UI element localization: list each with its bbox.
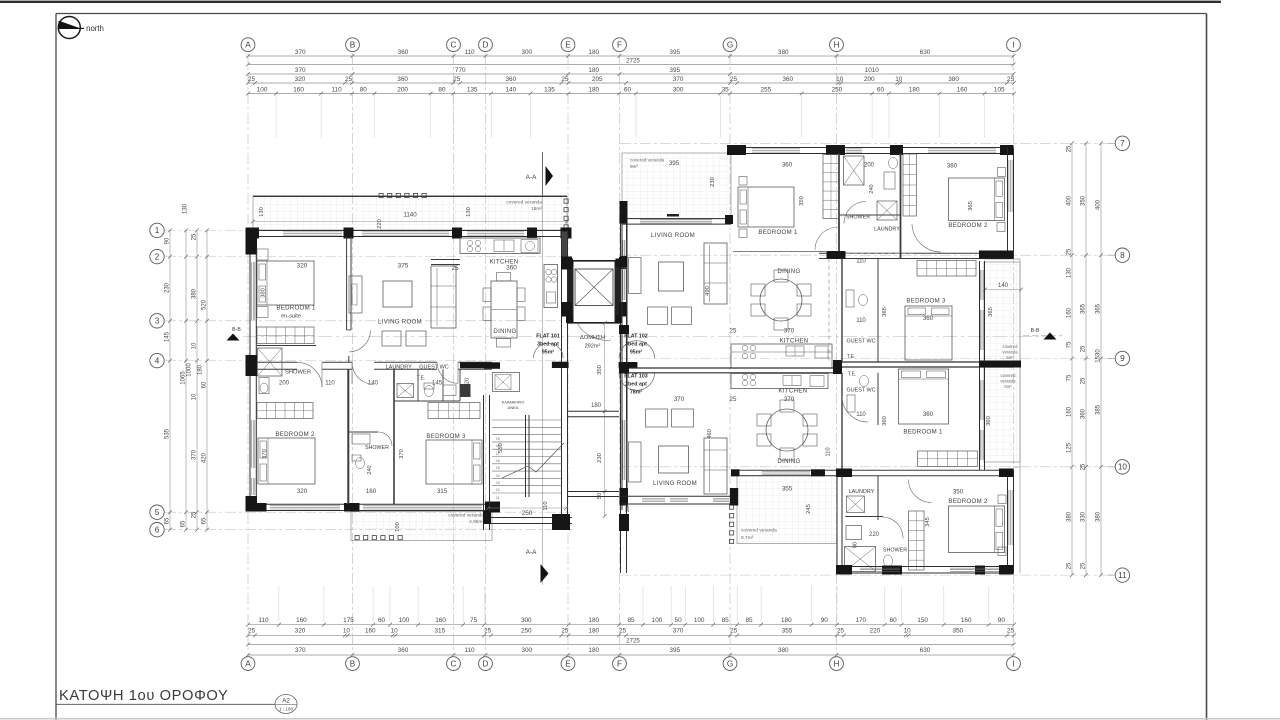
svg-text:1 : 100: 1 : 100 xyxy=(279,707,293,712)
wall stub above sofa xyxy=(431,259,460,261)
svg-text:78m²: 78m² xyxy=(630,390,643,396)
svg-text:10: 10 xyxy=(836,76,844,83)
extension lines bottom xyxy=(278,586,280,622)
kitchen tall counter right xyxy=(544,265,558,308)
svg-text:75: 75 xyxy=(1067,341,1073,348)
svg-text:1530: 1530 xyxy=(1096,349,1102,363)
corridor walls xyxy=(562,232,568,268)
svg-text:180: 180 xyxy=(588,86,599,93)
svg-text:DINING: DINING xyxy=(493,328,516,335)
svg-text:370: 370 xyxy=(673,76,684,83)
svg-text:8,7m²: 8,7m² xyxy=(741,535,754,541)
svg-text:135: 135 xyxy=(467,86,478,93)
flat103 mid wall xyxy=(731,469,1014,471)
svg-text:630: 630 xyxy=(920,49,931,56)
svg-text:350: 350 xyxy=(1081,195,1087,206)
interior wall bedroom1 / living room xyxy=(346,237,348,331)
svg-text:25: 25 xyxy=(561,628,569,635)
svg-text:5: 5 xyxy=(155,508,160,517)
svg-text:T.E.: T.E. xyxy=(847,354,856,360)
flat103 dining round table xyxy=(766,409,808,451)
svg-text:300: 300 xyxy=(673,86,684,93)
svg-text:380: 380 xyxy=(1067,511,1073,522)
svg-text:160: 160 xyxy=(293,86,304,93)
svg-text:10: 10 xyxy=(343,628,351,635)
svg-text:370: 370 xyxy=(784,396,795,403)
svg-text:292m²: 292m² xyxy=(585,344,601,350)
flat102 dining round table xyxy=(760,279,802,321)
svg-text:180: 180 xyxy=(591,403,602,409)
svg-text:380: 380 xyxy=(778,49,789,56)
svg-text:BEDROOM 2: BEDROOM 2 xyxy=(275,431,315,438)
covered veranda middle of flat 103 xyxy=(737,476,837,544)
svg-text:A: A xyxy=(245,659,251,668)
svg-text:365: 365 xyxy=(968,201,974,211)
grid row bubbles right xyxy=(1115,136,1129,150)
svg-text:350: 350 xyxy=(952,628,963,635)
svg-text:100: 100 xyxy=(257,86,268,93)
flat102 mid wall xyxy=(819,252,1014,254)
hall wall horizontal xyxy=(257,361,297,363)
wall shower / bedroom3 xyxy=(393,369,395,504)
svg-text:380: 380 xyxy=(192,288,198,299)
svg-text:11: 11 xyxy=(1118,571,1127,580)
svg-text:365: 365 xyxy=(1096,303,1102,314)
svg-text:300: 300 xyxy=(521,617,532,624)
svg-text:25: 25 xyxy=(561,76,569,83)
svg-text:35: 35 xyxy=(722,86,730,93)
svg-text:85: 85 xyxy=(722,617,730,624)
svg-text:130: 130 xyxy=(183,203,189,214)
section line A-A top xyxy=(542,152,544,585)
svg-text:25: 25 xyxy=(1081,463,1087,470)
svg-text:80: 80 xyxy=(438,86,446,93)
svg-text:360: 360 xyxy=(398,49,409,56)
svg-text:25: 25 xyxy=(484,628,492,635)
svg-text:630: 630 xyxy=(920,647,931,654)
bedroom1 door arc xyxy=(349,331,371,353)
svg-text:BEDROOM 3: BEDROOM 3 xyxy=(906,298,946,305)
svg-text:370: 370 xyxy=(673,628,684,635)
left building windows left wall xyxy=(251,262,253,320)
svg-text:360: 360 xyxy=(1081,408,1087,419)
svg-text:SHOWER: SHOWER xyxy=(365,445,389,451)
svg-text:FLAT 102: FLAT 102 xyxy=(624,334,648,340)
dining table left building xyxy=(491,281,517,338)
svg-text:5m²: 5m² xyxy=(1004,384,1012,389)
svg-text:9m²: 9m² xyxy=(630,164,638,169)
scale bubble A2 1:100 xyxy=(275,695,297,714)
section line B-B across xyxy=(243,336,1045,338)
svg-text:FLAT 103: FLAT 103 xyxy=(624,374,648,380)
svg-text:D: D xyxy=(483,40,489,49)
svg-text:25: 25 xyxy=(837,628,845,635)
svg-text:covered: covered xyxy=(1003,344,1019,349)
svg-text:110: 110 xyxy=(464,49,475,56)
north arrow symbol xyxy=(58,17,80,39)
svg-text:65: 65 xyxy=(202,517,208,524)
flat entrance doors from corridor xyxy=(534,343,564,358)
grid column bubbles bottom xyxy=(241,657,255,671)
svg-text:160: 160 xyxy=(961,617,972,624)
svg-text:A2: A2 xyxy=(282,698,290,705)
svg-text:350: 350 xyxy=(597,365,603,375)
en-suite separating wall xyxy=(257,345,316,347)
svg-text:D: D xyxy=(483,659,489,668)
living room coffee table xyxy=(383,281,412,307)
svg-text:BEDROOM 3: BEDROOM 3 xyxy=(426,433,466,440)
svg-text:370: 370 xyxy=(295,49,306,56)
svg-text:220: 220 xyxy=(377,219,383,229)
svg-text:2bed apt: 2bed apt xyxy=(625,382,647,388)
svg-text:370: 370 xyxy=(399,449,405,459)
svg-text:2: 2 xyxy=(155,252,160,261)
svg-text:370: 370 xyxy=(295,647,306,654)
living room furniture tv unit xyxy=(349,276,362,313)
bottom dimension row 2 xyxy=(248,634,1014,636)
svg-text:350: 350 xyxy=(953,489,964,496)
flat103 bedroom2 xyxy=(939,476,941,506)
svg-text:10: 10 xyxy=(904,628,912,635)
svg-text:25: 25 xyxy=(1081,562,1087,569)
svg-text:BEDROOM 1: BEDROOM 1 xyxy=(758,229,798,236)
svg-text:25: 25 xyxy=(248,628,256,635)
svg-text:GUEST WC: GUEST WC xyxy=(419,365,449,371)
svg-text:85: 85 xyxy=(627,617,635,624)
svg-text:420: 420 xyxy=(202,452,208,463)
svg-text:315: 315 xyxy=(437,488,448,495)
svg-text:25: 25 xyxy=(1081,345,1087,352)
svg-text:95m²: 95m² xyxy=(542,350,555,356)
flat103 shower room xyxy=(845,547,876,572)
svg-text:250: 250 xyxy=(832,86,843,93)
svg-text:25: 25 xyxy=(1007,76,1015,83)
flat102 bedroom2 door arc xyxy=(912,224,941,252)
svg-text:3bed apt: 3bed apt xyxy=(537,342,559,348)
svg-text:395: 395 xyxy=(669,160,680,167)
flat102 bedroom1 bed xyxy=(738,187,794,227)
svg-text:25: 25 xyxy=(1067,562,1073,569)
svg-text:A-A: A-A xyxy=(526,174,537,181)
svg-text:6: 6 xyxy=(155,525,160,534)
svg-text:320: 320 xyxy=(297,488,308,495)
svg-text:320: 320 xyxy=(295,76,306,83)
svg-text:BEDROOM 2: BEDROOM 2 xyxy=(948,498,988,505)
svg-text:65: 65 xyxy=(181,520,187,527)
svg-text:60: 60 xyxy=(202,381,208,388)
guest wc sink xyxy=(443,385,456,396)
left building exterior walls xyxy=(250,230,567,232)
svg-text:240: 240 xyxy=(869,184,875,193)
svg-text:200: 200 xyxy=(864,76,875,83)
svg-text:150: 150 xyxy=(917,617,928,624)
svg-text:360: 360 xyxy=(398,647,409,654)
svg-text:G: G xyxy=(727,40,733,49)
svg-text:160: 160 xyxy=(435,617,446,624)
svg-text:125: 125 xyxy=(1067,442,1073,453)
flat102 guest wc xyxy=(841,259,843,363)
svg-text:200: 200 xyxy=(864,163,875,169)
svg-text:230: 230 xyxy=(597,453,603,463)
svg-text:90: 90 xyxy=(165,237,171,244)
svg-text:200: 200 xyxy=(397,86,408,93)
bedroom1 bed xyxy=(257,261,314,305)
svg-text:LIVING ROOM: LIVING ROOM xyxy=(651,232,695,239)
svg-text:north: north xyxy=(86,24,104,33)
svg-text:10: 10 xyxy=(1118,463,1128,472)
wall bedroom2 / shower xyxy=(347,369,349,504)
svg-text:3: 3 xyxy=(155,317,160,326)
svg-text:E: E xyxy=(565,659,571,668)
svg-text:160: 160 xyxy=(957,86,968,93)
svg-text:25: 25 xyxy=(192,233,198,240)
svg-text:GUEST WC: GUEST WC xyxy=(847,339,876,345)
svg-text:180: 180 xyxy=(588,617,599,624)
svg-text:25: 25 xyxy=(453,76,461,83)
svg-text:375: 375 xyxy=(398,263,409,270)
bottom dimension row detail xyxy=(248,624,1014,626)
flat103 laundry xyxy=(836,476,838,567)
top dimension row 5 xyxy=(248,93,1014,95)
svg-text:145: 145 xyxy=(165,331,171,342)
extension lines top xyxy=(275,96,277,139)
svg-text:50: 50 xyxy=(675,617,683,624)
svg-text:25: 25 xyxy=(1081,377,1087,384)
right side vertical dimension lines xyxy=(1071,143,1073,575)
right building top wall columns xyxy=(727,145,746,155)
svg-text:160: 160 xyxy=(366,488,377,495)
flat102 bedroom2 bed xyxy=(949,178,1005,221)
flat102 closet between laundry bed2 xyxy=(903,154,917,216)
flat103 shower door arc xyxy=(883,517,904,539)
svg-text:110: 110 xyxy=(325,381,335,387)
svg-text:1010: 1010 xyxy=(865,67,880,74)
svg-text:365: 365 xyxy=(1081,303,1087,314)
svg-text:140: 140 xyxy=(998,283,1009,289)
covered veranda top of left building xyxy=(253,196,567,230)
flat103 living room furniture xyxy=(629,442,642,482)
svg-text:370: 370 xyxy=(262,449,268,459)
svg-text:ΑΝΕΑ: ΑΝΕΑ xyxy=(508,405,519,410)
guest wc toilet xyxy=(424,383,434,389)
svg-text:covered veranda: covered veranda xyxy=(741,528,777,534)
svg-text:25: 25 xyxy=(451,265,459,272)
covered veranda bottom of left building xyxy=(351,512,492,541)
top dimension row 4 xyxy=(248,82,1014,84)
flat102 shower room xyxy=(844,156,865,185)
svg-text:G: G xyxy=(727,659,733,668)
bedroom3 bed xyxy=(426,440,482,484)
svg-text:355: 355 xyxy=(782,628,793,635)
svg-text:H: H xyxy=(834,659,840,668)
svg-text:220: 220 xyxy=(870,628,881,635)
svg-text:365: 365 xyxy=(882,307,888,317)
flat102 bedroom3 xyxy=(917,261,976,277)
svg-text:I: I xyxy=(1012,659,1014,668)
stairwell walls xyxy=(483,395,485,530)
svg-text:100: 100 xyxy=(395,522,401,532)
svg-text:380: 380 xyxy=(1096,511,1102,522)
svg-text:I: I xyxy=(1012,40,1014,49)
svg-text:60: 60 xyxy=(890,617,898,624)
svg-text:100: 100 xyxy=(694,617,705,624)
svg-text:140: 140 xyxy=(505,86,516,93)
svg-text:360: 360 xyxy=(397,76,408,83)
flat102 laundry washer xyxy=(877,201,897,220)
svg-text:360: 360 xyxy=(882,416,888,426)
svg-text:3bed apt: 3bed apt xyxy=(625,342,647,348)
svg-text:240: 240 xyxy=(367,465,373,474)
svg-text:220: 220 xyxy=(869,532,880,538)
svg-text:B: B xyxy=(350,40,356,49)
svg-text:180: 180 xyxy=(588,49,599,56)
stair treads xyxy=(492,419,562,421)
svg-text:BEDROOM 2: BEDROOM 2 xyxy=(948,222,988,229)
svg-text:LIVING ROOM: LIVING ROOM xyxy=(378,319,422,326)
grid lines vertical dashed xyxy=(247,53,249,655)
svg-text:90: 90 xyxy=(998,617,1006,624)
svg-text:covered: covered xyxy=(1001,373,1017,378)
svg-text:300: 300 xyxy=(521,49,532,56)
svg-text:110: 110 xyxy=(543,501,549,510)
flat103 bedroom2 door arc xyxy=(909,480,932,503)
svg-text:320: 320 xyxy=(295,628,306,635)
svg-text:60: 60 xyxy=(877,86,885,93)
svg-text:350: 350 xyxy=(799,196,805,206)
svg-text:370: 370 xyxy=(674,396,685,403)
en-suite shower room xyxy=(258,348,283,376)
flat103 kitchen counter xyxy=(731,374,828,389)
svg-text:18m²: 18m² xyxy=(531,206,542,212)
svg-text:130: 130 xyxy=(259,207,265,217)
bedroom2 bed xyxy=(258,438,315,484)
svg-text:110: 110 xyxy=(464,647,475,654)
svg-text:BEDROOM 1: BEDROOM 1 xyxy=(903,429,943,436)
svg-text:10: 10 xyxy=(192,393,198,400)
kitchen counter left building xyxy=(460,238,540,254)
svg-text:100: 100 xyxy=(652,617,663,624)
svg-text:95m²: 95m² xyxy=(630,350,643,356)
svg-text:13: 13 xyxy=(496,481,500,485)
sheet frame xyxy=(0,1,1221,3)
svg-text:F: F xyxy=(617,659,622,668)
svg-text:25: 25 xyxy=(730,328,737,335)
svg-text:395: 395 xyxy=(669,647,680,654)
svg-text:1140: 1140 xyxy=(403,212,417,219)
svg-text:90: 90 xyxy=(821,617,829,624)
svg-text:1000: 1000 xyxy=(187,363,193,377)
elevator door arc xyxy=(577,323,611,340)
flat102 interior walls top strip xyxy=(838,154,840,259)
svg-text:SHOWER: SHOWER xyxy=(285,370,311,376)
section line A-A bottom xyxy=(541,564,549,583)
svg-text:LAUNDRY: LAUNDRY xyxy=(849,489,875,495)
svg-text:10: 10 xyxy=(895,76,903,83)
svg-text:H: H xyxy=(834,40,840,49)
svg-text:25: 25 xyxy=(730,396,737,403)
svg-text:110: 110 xyxy=(856,258,866,264)
svg-text:25: 25 xyxy=(730,628,738,635)
svg-text:80: 80 xyxy=(853,542,859,548)
svg-text:180: 180 xyxy=(781,617,792,624)
svg-text:75: 75 xyxy=(1067,374,1073,381)
flat103 bedroom1 door arc xyxy=(842,396,868,422)
svg-text:10: 10 xyxy=(192,342,198,349)
section marker B-B right xyxy=(1023,335,1062,337)
svg-text:160: 160 xyxy=(1067,307,1073,318)
party wall between flats 102 and 103 xyxy=(622,367,837,369)
svg-text:385: 385 xyxy=(1096,404,1102,415)
svg-text:395: 395 xyxy=(669,67,680,74)
svg-text:ΚΑΤΟΨΗ 1ου ΟΡΟΦΟΥ: ΚΑΤΟΨΗ 1ου ΟΡΟΦΟΥ xyxy=(59,688,228,704)
svg-text:130: 130 xyxy=(466,207,472,217)
svg-text:130: 130 xyxy=(1067,267,1073,278)
svg-text:25: 25 xyxy=(1067,248,1073,255)
svg-text:25: 25 xyxy=(1067,145,1073,152)
svg-text:25: 25 xyxy=(619,628,627,635)
svg-text:8: 8 xyxy=(1120,251,1125,260)
svg-text:180: 180 xyxy=(588,647,599,654)
svg-text:370: 370 xyxy=(295,67,306,74)
svg-text:25: 25 xyxy=(248,76,256,83)
svg-text:160: 160 xyxy=(1067,406,1073,417)
svg-text:180: 180 xyxy=(909,86,920,93)
svg-text:1: 1 xyxy=(155,226,160,235)
bottom dimension overall 2725 xyxy=(248,644,1014,646)
living room armchairs xyxy=(382,331,401,346)
right building top wall xyxy=(729,147,1014,149)
svg-text:LAUNDRY: LAUNDRY xyxy=(874,227,900,233)
svg-text:360: 360 xyxy=(923,315,934,322)
svg-text:9: 9 xyxy=(1120,354,1125,363)
svg-text:14: 14 xyxy=(496,474,500,478)
svg-text:80: 80 xyxy=(360,86,368,93)
svg-text:250: 250 xyxy=(522,510,533,517)
svg-text:110: 110 xyxy=(258,617,269,624)
svg-text:490: 490 xyxy=(705,286,711,296)
flat103 bedroom1 xyxy=(979,367,981,470)
svg-text:315: 315 xyxy=(435,628,446,635)
svg-text:100: 100 xyxy=(399,617,410,624)
svg-text:C: C xyxy=(451,659,457,668)
svg-text:60: 60 xyxy=(624,86,632,93)
flat102 kitchen counter xyxy=(731,344,832,368)
svg-text:380: 380 xyxy=(948,76,959,83)
stair width dim 250 xyxy=(488,507,566,509)
svg-text:110: 110 xyxy=(856,412,866,418)
svg-text:370: 370 xyxy=(784,328,795,335)
svg-text:25: 25 xyxy=(625,506,631,512)
svg-text:75: 75 xyxy=(470,617,478,624)
svg-text:12: 12 xyxy=(496,488,500,492)
svg-text:380: 380 xyxy=(261,288,267,298)
svg-text:360: 360 xyxy=(986,416,992,426)
svg-text:25: 25 xyxy=(345,76,353,83)
svg-text:110: 110 xyxy=(826,447,832,456)
svg-text:25: 25 xyxy=(730,76,738,83)
svg-text:550: 550 xyxy=(498,443,504,453)
svg-text:4: 4 xyxy=(155,356,160,365)
grid column bubbles top xyxy=(241,38,255,52)
middle shower room top wall xyxy=(348,431,378,433)
svg-text:KITCHEN: KITCHEN xyxy=(779,388,808,395)
svg-text:B-B: B-B xyxy=(1031,328,1040,334)
wardrobe bedroom 1 xyxy=(257,327,314,344)
svg-text:85: 85 xyxy=(746,617,754,624)
svg-text:205: 205 xyxy=(592,76,603,83)
svg-text:F: F xyxy=(617,40,622,49)
svg-text:380: 380 xyxy=(778,647,789,654)
